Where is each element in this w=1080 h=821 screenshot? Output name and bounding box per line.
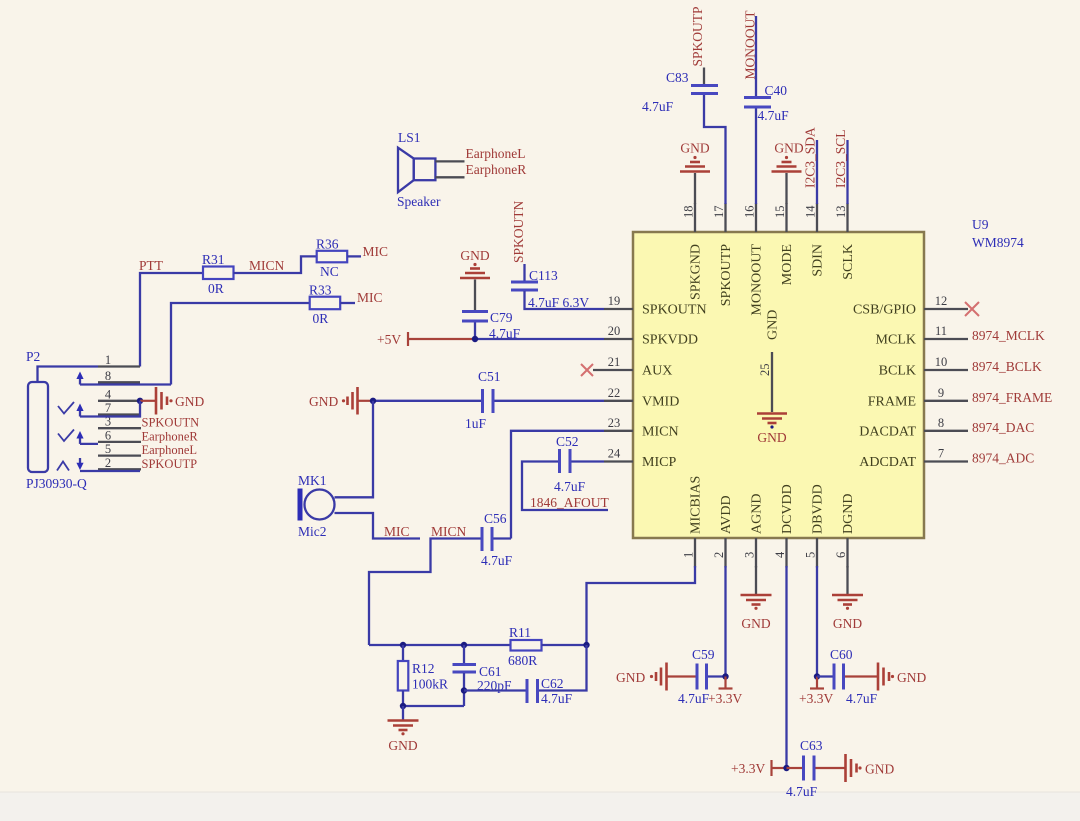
junction node R12 top: [400, 642, 406, 648]
svg-text:17: 17: [712, 206, 726, 219]
svg-text:10: 10: [935, 355, 948, 369]
svg-text:0R: 0R: [208, 281, 224, 296]
pin 10 BCLK: [879, 355, 968, 379]
svg-text:21: 21: [608, 355, 621, 369]
svg-text:GND: GND: [175, 394, 204, 409]
ground GND sideways at P2 pin 4: [140, 387, 204, 415]
svg-text:MIC: MIC: [384, 524, 410, 539]
microphone MK1 Mic2: [298, 473, 335, 539]
power port +3.3V at C60: [799, 677, 833, 707]
wire MIC stub from microphone: [335, 513, 421, 539]
svg-text:5: 5: [804, 552, 818, 558]
svg-text:7: 7: [105, 401, 111, 415]
svg-text:CSB/GPIO: CSB/GPIO: [853, 303, 916, 318]
junction node MICBIAS/R11: [583, 642, 589, 648]
svg-text:GND: GND: [309, 394, 338, 409]
svg-text:EarphoneL: EarphoneL: [142, 443, 198, 457]
wire C56 to pin23 riser: [494, 537, 512, 539]
pin 4 of P2: [98, 387, 140, 401]
svg-text:4.7uF: 4.7uF: [541, 691, 573, 706]
svg-text:13: 13: [834, 206, 848, 219]
pin 6 of P2: [98, 428, 141, 442]
svg-text:AGND: AGND: [750, 494, 765, 534]
svg-text:SPKGND: SPKGND: [689, 244, 704, 300]
svg-text:8974_DAC: 8974_DAC: [972, 420, 1034, 435]
junction node AVDD/C59: [722, 673, 728, 679]
capacitor C62: [527, 676, 573, 706]
svg-text:24: 24: [608, 447, 621, 461]
svg-text:9: 9: [938, 386, 944, 400]
ground symbol internal pin 25: [757, 414, 787, 446]
svg-text:GND: GND: [757, 430, 786, 445]
ground GND sideways at VMID node: [309, 387, 370, 415]
designator U9 WM8974: [972, 217, 1024, 250]
ground GND below pin 6 DGND: [832, 566, 863, 631]
capacitor C59: [678, 647, 715, 706]
svg-text:100kR: 100kR: [412, 677, 448, 692]
svg-text:DACDAT: DACDAT: [859, 424, 916, 439]
wire SPKOUTN stub to C113: [523, 264, 525, 281]
power port +3.3V at C59: [708, 677, 742, 707]
svg-text:GND: GND: [865, 762, 894, 777]
wire R36 output: [347, 255, 361, 257]
svg-text:MICN: MICN: [642, 424, 679, 439]
ground GND sideways right of C63: [816, 754, 895, 782]
pin 3 of P2: [98, 415, 141, 429]
resistor R36: [316, 237, 347, 280]
svg-text:C51: C51: [478, 369, 501, 384]
switch arrow pin 6: [76, 431, 98, 444]
svg-text:I2C3_SCL: I2C3_SCL: [833, 129, 848, 188]
ground GND below R12: [388, 706, 419, 753]
wire PTT from P2 pin1 to R31: [140, 273, 203, 367]
switch arrow pin 2 (down): [76, 458, 140, 471]
wire AVDD pin 2 down: [724, 566, 726, 677]
svg-text:R11: R11: [509, 625, 531, 640]
ground GND sideways right of C60: [845, 663, 926, 691]
capacitor C51: [465, 369, 501, 431]
wire I2C3_SDA to pin 14: [816, 140, 818, 204]
pin 2 of P2: [98, 456, 141, 470]
svg-text:U9: U9: [972, 217, 989, 232]
svg-text:DCVDD: DCVDD: [780, 484, 795, 534]
svg-text:MICBIAS: MICBIAS: [689, 476, 704, 534]
svg-text:15: 15: [773, 206, 787, 219]
svg-text:4.7uF: 4.7uF: [846, 691, 878, 706]
svg-text:MIC: MIC: [357, 290, 383, 305]
capacitor C63: [786, 738, 823, 799]
svg-text:PTT: PTT: [139, 258, 164, 273]
svg-text:C83: C83: [666, 70, 689, 85]
svg-text:20: 20: [608, 324, 621, 338]
svg-text:+5V: +5V: [377, 332, 401, 347]
svg-text:SCLK: SCLK: [841, 244, 856, 280]
svg-text:GND: GND: [460, 248, 489, 263]
svg-text:SPKOUTP: SPKOUTP: [142, 457, 198, 471]
svg-text:8974_FRAME: 8974_FRAME: [972, 390, 1052, 405]
svg-text:R36: R36: [316, 237, 339, 252]
svg-text:GND: GND: [774, 141, 803, 156]
svg-text:8974_MCLK: 8974_MCLK: [972, 328, 1045, 343]
pin 14 SDIN: [804, 203, 826, 277]
svg-text:C40: C40: [765, 83, 788, 98]
capacitor C56: [481, 511, 513, 568]
wire C52 to pin 24: [572, 460, 605, 462]
svg-text:SPKOUTN: SPKOUTN: [142, 416, 200, 430]
capacitor C52: [554, 434, 586, 494]
svg-text:MICP: MICP: [642, 455, 676, 470]
svg-text:14: 14: [804, 205, 818, 218]
wire P2 pin8 to R33: [171, 303, 310, 385]
capacitor C40: [744, 83, 789, 123]
svg-text:22: 22: [608, 386, 621, 400]
pin EarphoneR of LS1: [435, 176, 464, 178]
svg-text:C60: C60: [830, 647, 853, 662]
wire pin 23 MICN to C56: [511, 431, 604, 539]
svg-text:EarphoneL: EarphoneL: [466, 146, 526, 161]
svg-text:7: 7: [938, 447, 944, 461]
svg-text:1: 1: [105, 353, 111, 367]
capacitor C113: [511, 268, 589, 310]
svg-text:12: 12: [935, 294, 948, 308]
svg-text:2: 2: [712, 552, 726, 558]
pin 24 MICP: [604, 447, 676, 471]
svg-text:NC: NC: [320, 264, 339, 279]
svg-text:1uF: 1uF: [465, 416, 487, 431]
svg-text:4.7uF: 4.7uF: [481, 553, 513, 568]
svg-text:MICN: MICN: [431, 524, 467, 539]
svg-text:8: 8: [938, 416, 944, 430]
resistor R33: [309, 283, 340, 327]
wire pin 7 to pin 4 node: [80, 401, 140, 417]
svg-text:R31: R31: [202, 252, 225, 267]
capacitor C79: [462, 310, 521, 341]
svg-text:3: 3: [743, 552, 757, 558]
pin 1 of P2: [98, 353, 140, 367]
wire bottom row R12 to C61: [403, 705, 464, 707]
svg-text:C62: C62: [541, 676, 564, 691]
junction node at C79/+5V: [472, 336, 478, 342]
svg-text:+3.3V: +3.3V: [799, 691, 833, 706]
junction node DBVDD/C60: [814, 673, 820, 679]
wire R31 to R36: [234, 256, 317, 273]
wire C52 left to 1846_AFOUT stub: [522, 462, 608, 511]
svg-text:C59: C59: [692, 647, 715, 662]
svg-text:SPKOUTN: SPKOUTN: [511, 200, 526, 263]
pin 8 DACDAT: [859, 416, 968, 440]
svg-text:SPKVDD: SPKVDD: [642, 333, 698, 348]
wire pin 8 switch feed: [80, 383, 171, 385]
svg-text:AUX: AUX: [642, 364, 672, 379]
wire MICN net from C56 down to bias network: [369, 539, 481, 646]
svg-text:LS1: LS1: [398, 130, 421, 145]
svg-text:MICN: MICN: [249, 258, 285, 273]
wire P2 sleeve to pin 1: [38, 367, 99, 383]
wire C61 node to C62 left: [464, 689, 526, 691]
wire C59 to AVDD node: [708, 675, 726, 677]
ground GND sideways left of C59: [616, 663, 696, 691]
ground GND below pin 3 AGND: [741, 566, 772, 631]
svg-text:EarphoneR: EarphoneR: [466, 162, 527, 177]
power port +3.3V at C63: [731, 760, 787, 776]
svg-text:19: 19: [608, 294, 621, 308]
resistor R31: [202, 252, 234, 296]
switch arrow pin 7: [76, 404, 83, 417]
svg-text:6: 6: [105, 428, 111, 442]
wire MONOOUT stub: [755, 16, 757, 96]
pin 2 AVDD: [712, 495, 734, 567]
pin EarphoneL of LS1: [435, 160, 464, 162]
pin 1 MICBIAS: [682, 476, 704, 568]
svg-text:GND: GND: [897, 670, 926, 685]
svg-text:FRAME: FRAME: [868, 394, 916, 409]
capacitor C61: [453, 645, 513, 706]
svg-text:680R: 680R: [508, 653, 537, 668]
svg-text:VMID: VMID: [642, 394, 679, 409]
wire DBVDD pin 5 down: [816, 566, 818, 677]
junction node VMID: [370, 398, 376, 404]
pin 6 DGND: [834, 494, 856, 568]
pin 19 SPKOUTN: [604, 294, 707, 318]
svg-text:16: 16: [743, 206, 757, 219]
svg-text:C61: C61: [479, 664, 502, 679]
svg-text:GND: GND: [741, 616, 770, 631]
junction node DCVDD/C63: [783, 765, 789, 771]
svg-text:8974_ADC: 8974_ADC: [972, 451, 1034, 466]
IC U9 WM8974 body: [633, 232, 924, 538]
svg-text:23: 23: [608, 416, 621, 430]
junction node R12 bottom: [400, 703, 406, 709]
speaker LS1: [397, 130, 441, 209]
no-connect X on pin 21: [581, 364, 593, 376]
wire MICBIAS from pin 1: [587, 566, 696, 645]
pin 21 AUX: [593, 355, 672, 379]
pin 9 FRAME: [868, 386, 968, 410]
pin 7 ADCDAT: [859, 447, 968, 471]
pin 20 SPKVDD: [604, 324, 698, 348]
wire R33 output: [340, 302, 355, 304]
svg-text:1: 1: [682, 552, 696, 558]
svg-text:R12: R12: [412, 661, 435, 676]
svg-text:MK1: MK1: [298, 473, 327, 488]
svg-text:4.7uF: 4.7uF: [678, 691, 710, 706]
svg-text:GND: GND: [833, 616, 862, 631]
wire microphone top to VMID node: [335, 401, 374, 498]
switch contact tick 4/7: [58, 402, 74, 414]
svg-text:8: 8: [105, 369, 111, 383]
ground GND above pin 18: [680, 141, 710, 205]
pin 12 CSB/GPIO: [853, 294, 968, 318]
wire C113 to pin 19: [525, 291, 605, 309]
no-connect X on pin 12: [965, 302, 979, 316]
pin 11 MCLK: [876, 324, 968, 348]
svg-text:2: 2: [105, 456, 111, 470]
svg-text:GND: GND: [388, 738, 417, 753]
svg-text:C79: C79: [490, 310, 513, 325]
junction node C61 bottom: [461, 687, 467, 693]
svg-text:4.7uF: 4.7uF: [642, 99, 674, 114]
pin 23 MICN: [604, 416, 679, 440]
svg-text:18: 18: [682, 206, 696, 219]
pin 25 GND internal: [758, 310, 781, 412]
svg-text:SDIN: SDIN: [811, 244, 826, 277]
svg-text:6: 6: [834, 552, 848, 558]
pin 7 of P2: [98, 401, 140, 415]
svg-text:Mic2: Mic2: [298, 524, 327, 539]
connector P2 PJ30930-Q body: [26, 349, 87, 491]
pin 16 MONOOUT: [743, 203, 765, 316]
svg-text:AVDD: AVDD: [719, 495, 734, 534]
svg-text:4: 4: [105, 387, 112, 401]
wire R11 right to MICBIAS node: [542, 644, 587, 646]
svg-text:0R: 0R: [313, 311, 329, 326]
pin 8 of P2: [98, 369, 140, 383]
wire C40 to pin 16: [755, 109, 757, 205]
wire VMID node to C51: [370, 400, 481, 402]
svg-text:PJ30930-Q: PJ30930-Q: [26, 476, 87, 491]
wire C83 to pin 17: [704, 95, 726, 204]
wire MICN bias bus: [369, 644, 511, 646]
svg-text:I2C3_SDA: I2C3_SDA: [803, 127, 818, 188]
svg-text:EarphoneR: EarphoneR: [142, 429, 199, 443]
pin 4 DCVDD: [773, 484, 795, 567]
wire SPKOUTP stub: [703, 68, 705, 85]
wire DCVDD pin 4 down: [785, 566, 787, 768]
svg-text:DBVDD: DBVDD: [811, 484, 826, 534]
wire +5V node to pin 20: [472, 338, 604, 340]
ground GND above pin 15: [772, 141, 804, 205]
pin 13 SCLK: [834, 203, 856, 280]
pin 22 VMID: [604, 386, 679, 410]
svg-text:ADCDAT: ADCDAT: [859, 455, 916, 470]
wire C79 to +5V node: [474, 323, 476, 340]
svg-text:4.7uF 6.3V: 4.7uF 6.3V: [528, 295, 589, 310]
switch contact hump 5/2: [57, 462, 69, 471]
svg-text:C63: C63: [800, 738, 823, 753]
svg-text:4.7uF: 4.7uF: [786, 784, 818, 799]
svg-text:1846_AFOUT: 1846_AFOUT: [530, 495, 610, 510]
pin 17 SPKOUTP: [712, 203, 734, 306]
svg-text:R33: R33: [309, 283, 332, 298]
svg-text:C52: C52: [556, 434, 579, 449]
ground GND above C79: [460, 248, 490, 311]
svg-text:GND: GND: [680, 141, 709, 156]
pin 15 MODE: [773, 203, 795, 285]
svg-text:25: 25: [758, 364, 772, 377]
wire I2C3_SCL to pin 13: [846, 140, 848, 204]
svg-text:SPKOUTN: SPKOUTN: [642, 303, 707, 318]
svg-text:MONOOUT: MONOOUT: [750, 244, 765, 316]
switch contact tick 3/6: [58, 430, 74, 442]
pin 5 of P2: [98, 442, 141, 456]
resistor R11: [508, 625, 542, 668]
svg-text:MCLK: MCLK: [876, 333, 916, 348]
wire C51 to pin 22: [495, 400, 605, 402]
svg-text:SPKOUTP: SPKOUTP: [719, 244, 734, 306]
svg-text:Speaker: Speaker: [397, 194, 441, 209]
svg-text:4: 4: [773, 551, 787, 558]
capacitor C83: [642, 70, 718, 114]
svg-text:+3.3V: +3.3V: [731, 761, 765, 776]
capacitor C60: [817, 647, 878, 706]
svg-text:C113: C113: [529, 268, 558, 283]
svg-text:8974_BCLK: 8974_BCLK: [972, 359, 1042, 374]
svg-text:MIC: MIC: [363, 244, 389, 259]
svg-text:BCLK: BCLK: [879, 364, 916, 379]
svg-text:C56: C56: [484, 511, 507, 526]
svg-text:GND: GND: [616, 670, 645, 685]
pin 18 SPKGND: [682, 203, 704, 300]
svg-text:+3.3V: +3.3V: [708, 691, 742, 706]
svg-text:5: 5: [105, 442, 111, 456]
pin 3 AGND: [743, 494, 765, 568]
wire node down to C62 right: [539, 645, 587, 691]
svg-text:11: 11: [935, 324, 947, 338]
junction node C61 top: [461, 642, 467, 648]
power port +5V: [377, 332, 472, 347]
pin 5 DBVDD: [804, 484, 826, 567]
svg-text:4.7uF: 4.7uF: [758, 108, 790, 123]
resistor R12: [398, 645, 448, 706]
svg-text:WM8974: WM8974: [972, 235, 1024, 250]
svg-text:4.7uF: 4.7uF: [554, 479, 586, 494]
svg-text:DGND: DGND: [841, 494, 856, 534]
svg-text:P2: P2: [26, 349, 40, 364]
svg-text:GND: GND: [766, 310, 781, 340]
junction node P2 pin 4: [137, 398, 143, 404]
svg-text:MODE: MODE: [780, 244, 795, 285]
switch arrow pin 8: [76, 372, 83, 385]
svg-text:SPKOUTP: SPKOUTP: [690, 6, 705, 66]
